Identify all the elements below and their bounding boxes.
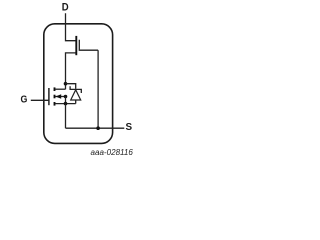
node junction dot drain/zener bbox=[64, 82, 68, 86]
wire body down to source line bbox=[65, 97, 67, 104]
wire zener anode down to source line bbox=[75, 100, 77, 104]
package outline rounded rectangle bbox=[44, 24, 113, 144]
transistor Q2 gate bar bbox=[48, 88, 50, 105]
wire Q1 gate down to S node bbox=[97, 50, 99, 128]
wire Q1 source lead: bar to left then down bbox=[66, 53, 76, 89]
wire G lead bbox=[31, 99, 49, 101]
diode Z1 zener cathode bar with ticks bbox=[70, 86, 81, 93]
wire zener cathode branch bbox=[66, 84, 76, 89]
transistor Q2 channel segment top bbox=[54, 87, 56, 91]
wire Q2 drain stub bbox=[55, 88, 65, 90]
wire S horizontal bbox=[66, 127, 125, 129]
transistor Q2 channel segment bottom bbox=[54, 102, 56, 106]
wire source column down to S wire bbox=[65, 104, 67, 129]
node junction dot gate/S bbox=[96, 126, 100, 130]
transistor Q2 channel segment middle bbox=[54, 95, 56, 99]
arrowhead body (points left) bbox=[55, 94, 61, 98]
wire Q2 source line to zener anode bbox=[55, 103, 75, 105]
wire D lead vertical and bend to Q1 bar bbox=[66, 13, 76, 41]
svg-text:aaa-028116: aaa-028116 bbox=[91, 147, 134, 157]
node junction dot source bbox=[64, 102, 68, 106]
transistor Q1 gate L-electrode bbox=[79, 40, 98, 51]
wire Q2 body lead with arrow bbox=[55, 96, 65, 98]
svg-text:S: S bbox=[126, 121, 133, 133]
node junction dot body bbox=[64, 95, 68, 99]
transistor Q1 (GaN HEMT) channel bar bbox=[75, 36, 77, 55]
svg-text:D: D bbox=[62, 2, 69, 14]
diode Z1 triangle anode bbox=[71, 90, 81, 100]
svg-text:G: G bbox=[21, 94, 28, 106]
